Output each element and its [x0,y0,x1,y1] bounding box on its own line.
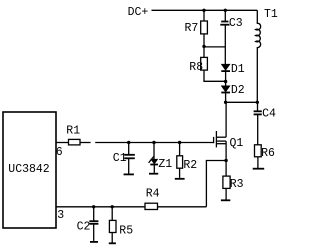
transistor Q1 [214,131,227,147]
wire R1 to gate (segment 1) [80,142,91,144]
ground below R2 [175,178,185,180]
svg-text:UC3842: UC3842 [8,163,50,176]
transformer T1 primary winding [256,10,261,102]
resistor R5 [109,220,116,232]
junction R2 [178,141,181,144]
resistor R8 [201,57,208,70]
ground below Z1 [149,173,158,175]
resistor R6 [255,145,262,157]
ground below C2 [90,241,98,243]
wire to C1 [128,143,130,155]
svg-text:Q1: Q1 [230,137,244,150]
svg-text:T1: T1 [264,8,278,21]
wire R4 to source branch [158,206,207,208]
junction R7/R8 [202,45,205,48]
wire Z1 to ground [153,165,155,173]
wire R1 to gate (segment 2) [95,142,213,144]
svg-text:R2: R2 [183,159,197,172]
wire R3 to ground [225,188,227,199]
svg-text:DC+: DC+ [128,6,149,19]
wire pin6 to R1 [56,142,69,144]
wire pin3 to R4 [56,206,145,208]
svg-text:R8: R8 [189,61,203,74]
svg-text:D2: D2 [231,84,245,97]
capacitor C1 [124,154,135,156]
op-amp U1 UC3842 box [3,112,56,228]
svg-text:R6: R6 [261,147,275,160]
svg-text:R1: R1 [66,125,80,138]
wire source to R3 [225,161,227,177]
junction drain node left [224,101,227,104]
junction C2 [92,205,95,208]
junction R5 [111,205,114,208]
wire D1 to D2 [225,71,227,86]
resistor R1 [69,139,81,145]
wire R8 bottom [204,70,226,81]
wire to Z1 [153,143,155,160]
ground below R6 [253,168,265,170]
junction at C3 branch [224,9,227,12]
wire C1 to ground [128,158,130,174]
svg-text:C1: C1 [113,152,127,165]
capacitor C4 [254,110,262,112]
svg-text:R7: R7 [185,22,199,35]
wire source of Q1 [225,141,227,160]
wire node to C4 [257,102,259,111]
wire R7/R8 junction to D1 line [204,46,226,48]
wire source to feedback [206,161,226,207]
resistor R3 [223,176,230,188]
resistor R2 [177,156,183,168]
wire DC+ top rail [152,9,258,11]
junction Z1 [152,141,155,144]
svg-text:R4: R4 [146,187,160,200]
wire C2 to ground [93,224,95,241]
svg-text:R3: R3 [230,178,244,191]
wire R7 to R8 [203,34,205,58]
diode D2 [221,86,230,93]
junction drain node right [256,101,259,104]
diode D1 [221,64,230,71]
zener Z1 [149,156,158,164]
wire R6 to ground [257,157,259,168]
svg-text:3: 3 [57,209,64,222]
wire to R2 [179,143,181,156]
resistor R4 [145,203,158,209]
wire drain of Q1 [225,102,227,137]
wire R7 branch top [203,10,205,21]
wire C3 to D1 [224,25,226,64]
svg-text:C4: C4 [262,108,276,121]
junction source node [224,159,227,162]
capacitor C2 [89,220,98,222]
svg-text:R5: R5 [119,224,133,237]
wire R2 to ground [179,168,181,178]
wire C3 branch top [224,10,226,21]
wire to C2 [93,207,95,221]
junction C1 [127,141,130,144]
ground below C1 [124,173,134,175]
svg-text:Z1: Z1 [158,158,172,171]
ground below R5 [109,242,116,244]
svg-text:C3: C3 [229,17,243,30]
junction at R7 branch [202,9,205,12]
svg-text:D1: D1 [231,63,245,76]
wire R5 to ground [111,233,113,243]
capacitor C3 [221,21,228,23]
svg-text:6: 6 [56,146,63,159]
ground below R3 [221,199,230,201]
resistor R7 [201,21,208,34]
wire D2 to drain node [225,93,227,103]
svg-text:C2: C2 [77,220,91,233]
wire C4 to R6 [257,114,259,144]
junction D1/D2 with R8 wire [224,80,227,83]
wire to R5 [111,207,113,221]
wire drain node rail [225,101,257,103]
